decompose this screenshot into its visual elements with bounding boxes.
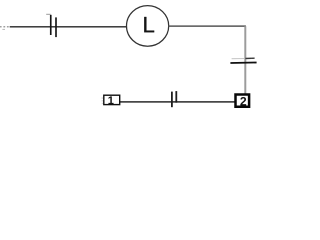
wire W3 vertical down to box 2 <box>244 26 246 94</box>
terminal box 2 label <box>240 97 246 106</box>
capacitor C1 right plate <box>55 17 57 37</box>
capacitor C2 upper plate right half <box>245 57 254 59</box>
lamp L letter <box>144 17 154 32</box>
wire W1 from left edge to lamp <box>10 26 127 28</box>
capacitor C1 tick at top of left plate <box>46 13 50 15</box>
capacitor C3 right plate <box>175 91 177 103</box>
capacitor C2 nub ticks above upper plate <box>251 56 252 59</box>
terminal box 2 <box>236 95 250 107</box>
wire W1 dashed lead-in at left edge <box>0 26 9 28</box>
capacitor C2 lower plate <box>230 62 256 65</box>
capacitor C3 left plate <box>171 92 173 108</box>
capacitor C2 upper plate faint left half <box>232 58 245 60</box>
capacitor C1 left plate <box>50 15 52 35</box>
scan noise speck below left wire <box>2 29 5 30</box>
wire W2 from lamp to right corner <box>169 25 246 27</box>
terminal box 1 <box>104 95 120 104</box>
wire W4 bottom from box 1 to box 2 <box>120 101 235 103</box>
terminal box 1 label <box>108 96 113 104</box>
lamp L circle <box>127 6 169 47</box>
scan noise dashes left of box 1 <box>102 97 103 104</box>
